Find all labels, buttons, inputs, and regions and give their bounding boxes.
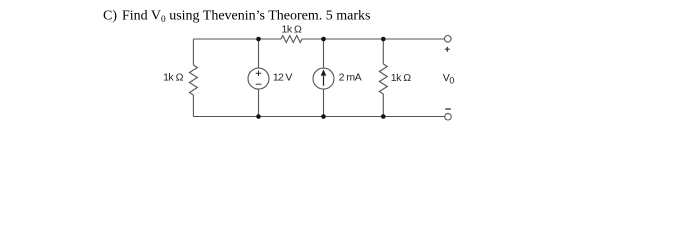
svg-text:C): C) [103,9,117,24]
svg-text:V0: V0 [443,72,455,85]
svg-text:Find V0 using Thevenin’s Theor: Find V0 using Thevenin’s Theorem. 5 mark… [122,9,371,25]
svg-text:12 V: 12 V [273,72,292,84]
svg-text:1k Ω: 1k Ω [391,72,412,84]
svg-text:1k Ω: 1k Ω [163,72,184,84]
svg-text:1k Ω: 1k Ω [282,24,303,36]
svg-text:2 mA: 2 mA [339,72,362,84]
